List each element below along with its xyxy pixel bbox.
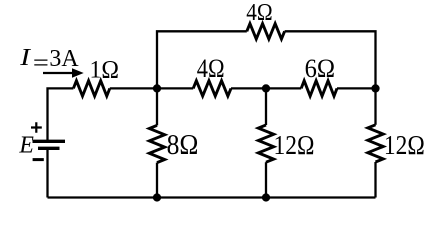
svg-text:4Ω: 4Ω: [246, 0, 272, 26]
svg-text:12Ω: 12Ω: [274, 129, 315, 160]
svg-text:6Ω: 6Ω: [305, 53, 335, 83]
wire: node C down to right 12ohm: [374, 88, 376, 124]
wire: middle 12ohm down to bottom rail: [265, 162, 267, 197]
wire: middle rail 6ohm to node C: [337, 87, 376, 89]
node A junction dot: [153, 84, 161, 92]
wire: node A down to 8ohm: [156, 88, 158, 125]
value label 12ohm (right): [384, 129, 425, 160]
svg-text:E: E: [18, 133, 34, 159]
svg-text:I: I: [19, 44, 31, 71]
node B junction dot: [262, 84, 270, 92]
wire: 8ohm down to bottom rail: [156, 163, 158, 198]
value label 12ohm (middle): [274, 129, 315, 160]
current arrow: [43, 68, 84, 77]
svg-text:3A: 3A: [49, 45, 79, 72]
wire: right 12ohm down to bottom rail: [374, 162, 376, 198]
value label 6ohm: [305, 53, 335, 83]
value label 1ohm: [90, 57, 119, 84]
resistor R1 1ohm zigzag: [73, 81, 109, 96]
voltage source E battery long plate (+): [33, 140, 66, 143]
resistor R6 12ohm (right) zigzag: [368, 125, 383, 162]
node C junction dot: [371, 84, 379, 92]
wire: middle rail 4ohm to node B: [231, 87, 266, 89]
resistor R4 8ohm zigzag: [149, 125, 164, 162]
wire: middle rail 1ohm to node A: [110, 87, 157, 89]
resistor R top 4ohm zigzag: [247, 24, 285, 39]
wire: top rail left segment with riser from node A: [157, 31, 247, 88]
resistor R3 6ohm zigzag: [301, 81, 337, 96]
wire: middle rail node B to 6ohm: [266, 87, 301, 89]
current label I = 3A: [19, 44, 79, 77]
label E: [18, 133, 34, 159]
value label 4ohm (middle): [197, 53, 225, 83]
minus sign: [33, 158, 44, 161]
svg-text:8Ω: 8Ω: [167, 130, 199, 161]
svg-text:1Ω: 1Ω: [90, 57, 119, 84]
svg-text:12Ω: 12Ω: [384, 129, 425, 160]
wire: battery - down to bottom rail: [46, 148, 48, 197]
wire: middle rail node A to 4ohm: [157, 87, 193, 89]
svg-text:4Ω: 4Ω: [197, 53, 225, 83]
wire: bottom rail: [48, 196, 376, 198]
wire: middle rail from battery + to 1ohm: [48, 88, 74, 141]
plus sign: [31, 122, 42, 133]
bottom node dot below A: [153, 193, 161, 201]
resistor R2 4ohm (middle) zigzag: [193, 81, 231, 96]
value label 8ohm: [167, 130, 199, 161]
resistor R5 12ohm (middle) zigzag: [258, 125, 273, 162]
bottom node dot below B: [262, 193, 270, 201]
value label 4ohm (top): [246, 0, 272, 26]
wire: node B down to 12ohm: [265, 88, 267, 125]
wire: top rail right segment with riser down to node C: [285, 31, 376, 88]
voltage source E battery short plate (-): [38, 147, 60, 150]
